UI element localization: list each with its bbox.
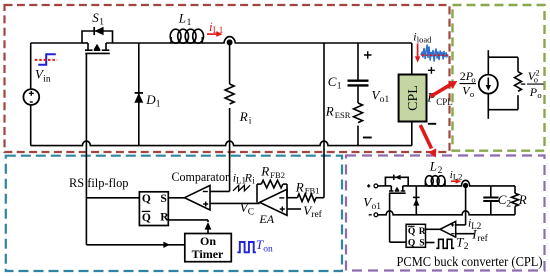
op-amp comparator (mini) — [440, 221, 456, 237]
CPL equivalent circuit: bottom wire — [488, 109, 518, 111]
wire: mini comparator bottom input — [456, 233, 474, 235]
RS flip-flop box — [139, 192, 168, 226]
wire: EA plus to Vref — [287, 208, 301, 210]
arrow PCPL to green box (red) — [431, 84, 452, 96]
wire: mini S stub — [426, 242, 435, 244]
CPL equivalent dashed box (green) — [453, 5, 545, 151]
svg-text:Q: Q — [142, 212, 151, 224]
svg-text:ESR: ESR — [335, 110, 351, 120]
source Vin — [23, 89, 39, 105]
wire: gate lead down to control — [85, 53, 87, 244]
wire: comparator minus input — [210, 190, 230, 192]
svg-text:S: S — [419, 238, 424, 248]
wire: RFB2 right leg — [286, 184, 288, 198]
svg-text:R: R — [295, 179, 304, 194]
transistor S1 channel — [88, 43, 106, 50]
Vin step waveform icon — [38, 54, 56, 64]
svg-text:1: 1 — [187, 18, 192, 28]
svg-text:ref: ref — [311, 209, 322, 220]
svg-text:PCMC buck converter (CPL): PCMC buck converter (CPL) — [397, 255, 543, 270]
svg-text:o: o — [534, 75, 538, 85]
On Timer box — [185, 234, 232, 262]
diode D1 — [138, 43, 140, 146]
svg-text:S: S — [160, 193, 166, 205]
svg-text:D: D — [145, 92, 156, 107]
wire: EA minus to RFB1 — [287, 197, 297, 199]
svg-text:R: R — [325, 104, 334, 119]
svg-text:load: load — [417, 34, 432, 44]
wire: mini bottom rail with hops — [378, 211, 515, 215]
svg-text:S: S — [92, 10, 99, 25]
svg-text:1: 1 — [156, 99, 161, 109]
Ton pulse waveform (blue) — [237, 242, 256, 252]
node: mini current sense dot — [463, 183, 468, 188]
capacitor C2 — [490, 186, 492, 197]
svg-text:o: o — [537, 90, 541, 100]
wire: CPL bottom lead — [411, 122, 413, 146]
wire: CPL top lead — [411, 43, 413, 75]
resistor RFB2 — [261, 180, 283, 188]
capacitor C1 — [357, 43, 359, 80]
wire: mini comparator top input — [456, 224, 466, 226]
svg-text:FB2: FB2 — [270, 170, 285, 180]
resistor Ri — [225, 84, 234, 104]
svg-text:CPL: CPL — [406, 85, 421, 111]
svg-text:RS filp-flop: RS filp-flop — [69, 175, 129, 190]
op-amp comparator — [185, 185, 211, 210]
label - (Vo1) — [363, 137, 372, 139]
svg-text:in: in — [43, 74, 51, 84]
label -Vo2/Po fraction — [521, 83, 526, 85]
wire: Q output to gate lead — [86, 197, 139, 199]
wire: mini Q to gate lead — [390, 241, 407, 243]
wire: sense line down — [229, 42, 231, 84]
wire: R input from timer — [168, 219, 208, 221]
wire: timer input from gate lead — [86, 244, 184, 246]
current arrow iL1 — [207, 33, 218, 35]
wire: EA output / RFB2 left leg — [256, 184, 258, 202]
wire: mini R to comparator output — [426, 228, 441, 230]
svg-text:R: R — [419, 227, 426, 237]
wire Vin bottom lead — [30, 105, 32, 146]
wire Vin top lead — [30, 43, 32, 89]
T2 pulse waveform (black) — [436, 239, 454, 248]
svg-text:ref: ref — [477, 233, 488, 244]
terminal + — [367, 184, 370, 187]
svg-text:L2: L2 — [453, 172, 462, 182]
control dashed box (cyan) — [6, 156, 342, 271]
svg-text:CPL: CPL — [436, 97, 453, 107]
transistor S2 channel — [391, 186, 403, 191]
svg-text:Q: Q — [142, 193, 151, 205]
diode D2 — [415, 186, 417, 215]
svg-text:i: i — [249, 116, 252, 126]
svg-text:Timer: Timer — [192, 247, 224, 261]
svg-text:On: On — [200, 234, 216, 248]
inductor L1 — [170, 37, 172, 43]
resistor R (mini) — [514, 186, 516, 193]
svg-text:L: L — [429, 159, 437, 174]
sawtooth icon — [233, 185, 250, 191]
node: current sense (dot) — [227, 39, 233, 45]
wire: sense line to comparator — [229, 108, 231, 191]
mini RS flip-flop box — [406, 224, 425, 247]
wire: top rail — [31, 42, 82, 44]
PCMC CPL dashed box (purple) — [346, 156, 545, 271]
svg-text:1: 1 — [99, 17, 104, 27]
resistor RESR — [354, 103, 363, 123]
wire: mini gate lead — [389, 193, 391, 242]
current source branch — [487, 50, 489, 74]
transistor S2 body-diode loop — [385, 177, 408, 186]
svg-text:L1: L1 — [213, 26, 224, 36]
resistor RFB1 — [297, 194, 316, 202]
svg-text:R: R — [239, 109, 248, 124]
svg-text:o: o — [470, 89, 474, 99]
op-amp EA — [260, 189, 287, 215]
wire: bottom rail with hops — [31, 141, 412, 146]
svg-text:on: on — [263, 244, 273, 254]
svg-text:2: 2 — [464, 242, 469, 252]
resistor -Vo2/Po branch — [517, 57, 519, 71]
transistor S1 gate — [85, 52, 110, 54]
transistor S1 body-diode loop — [82, 31, 113, 43]
svg-text:EA: EA — [258, 212, 274, 226]
label + (Vo1) — [364, 51, 372, 59]
power stage dashed box (dark red) — [5, 5, 450, 152]
svg-text:Q: Q — [408, 238, 415, 248]
wire: mini top rail — [378, 185, 386, 187]
current arrow iL2 (red) — [451, 180, 457, 182]
svg-text:FB1: FB1 — [305, 186, 320, 196]
svg-text:P: P — [426, 90, 435, 105]
arrow CPL to PCMC box (red) — [420, 125, 431, 149]
svg-text:o1: o1 — [372, 202, 382, 212]
inductor L2 — [424, 181, 426, 186]
CPL block — [399, 75, 427, 122]
wire: feedback tap Vo1 — [323, 43, 325, 198]
svg-text:L: L — [178, 11, 186, 26]
label - (PCPL) — [428, 123, 436, 125]
svg-text:R: R — [518, 192, 527, 207]
svg-text:C: C — [248, 207, 254, 217]
wire: mini sense line down — [465, 186, 467, 225]
svg-text:1: 1 — [337, 82, 342, 92]
terminal - — [369, 214, 372, 216]
svg-text:R: R — [160, 212, 169, 224]
CPL equivalent circuit: top wire — [488, 56, 518, 58]
current arrow iload (red) — [417, 44, 419, 58]
body diode — [93, 27, 95, 35]
wire: comparator output to S — [168, 197, 184, 199]
svg-text:C: C — [328, 74, 337, 89]
svg-text:2: 2 — [506, 200, 511, 210]
wire: comparator plus input from EA — [210, 202, 260, 204]
svg-text:Comparator: Comparator — [172, 169, 230, 184]
svg-text:2: 2 — [438, 166, 443, 176]
label + (PCPL) — [428, 67, 435, 74]
svg-text:o1: o1 — [380, 95, 390, 105]
transistor S2 gate — [389, 192, 406, 194]
iload noise waveform (blue) — [421, 45, 448, 62]
svg-text:R: R — [260, 164, 269, 179]
svg-text:Q: Q — [408, 227, 415, 237]
